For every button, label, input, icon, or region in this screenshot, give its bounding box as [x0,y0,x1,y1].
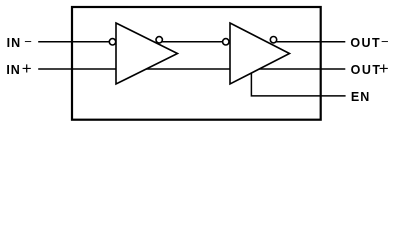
svg-text:+: + [379,59,389,78]
svg-text:IN: IN [6,63,20,77]
inverting bubble U1 input [109,39,115,45]
wire interstage net U1 output to U2 input [157,41,228,43]
svg-text:+: + [22,59,32,78]
device outline box [72,7,321,120]
svg-text:−: − [24,34,32,49]
wire OUT- output net [275,41,345,43]
svg-text:OUT: OUT [351,63,382,77]
inverting bubble U2 output [270,37,276,43]
wire IN- input net (y=41.8) [38,41,111,43]
buffer U1 [116,23,178,84]
inverting bubble U2 input [223,39,229,45]
inverting bubble U1 output [156,37,162,43]
svg-text:EN: EN [351,90,370,104]
buffer U2 [230,23,290,84]
svg-text:−: − [381,34,389,49]
svg-text:IN: IN [7,36,22,50]
wire IN+ / OUT+ pass-through net (y=69) [38,68,345,70]
svg-text:OUT: OUT [350,36,381,50]
wire EN net [251,73,345,96]
